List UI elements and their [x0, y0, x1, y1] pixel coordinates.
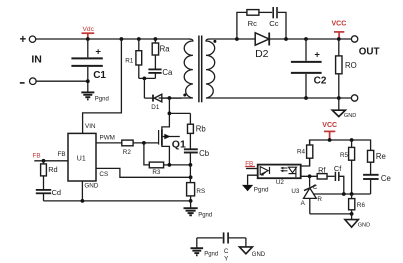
svg-text:R2: R2 — [123, 149, 132, 156]
transformer primary winding — [159, 39, 193, 98]
node junction GND bottom — [337, 96, 341, 100]
power VCC (feedback) — [322, 122, 337, 140]
node junction CS/RS — [189, 175, 193, 179]
ground Pgnd (CY) — [191, 238, 219, 258]
svg-text:Pgnd: Pgnd — [198, 213, 212, 219]
op-amp U1 controller — [68, 133, 96, 181]
svg-text:+: + — [95, 47, 101, 58]
wire PWM to R2 — [96, 142, 122, 144]
svg-text:+: + — [19, 34, 26, 46]
svg-text:PWM: PWM — [100, 134, 115, 141]
node junction R6 bottom — [350, 212, 354, 216]
ground Pgnd (RS) — [184, 201, 213, 219]
svg-text:Ca: Ca — [162, 68, 173, 77]
capacitor Cc — [269, 7, 278, 28]
svg-text:C1: C1 — [93, 70, 106, 81]
node junction C2 bottom — [304, 96, 308, 100]
wire reference row — [313, 193, 370, 195]
transformer secondary winding — [206, 39, 306, 98]
resistor R5 — [340, 140, 355, 194]
svg-text:R1: R1 — [125, 57, 134, 64]
resistor R3 — [149, 162, 169, 176]
svg-text:VIN: VIN — [85, 123, 96, 130]
node junction snubber left — [235, 37, 239, 41]
resistor RO — [336, 39, 357, 98]
svg-text:U1: U1 — [77, 156, 86, 163]
wire top rail — [36, 38, 190, 40]
svg-text:Re: Re — [376, 152, 386, 161]
svg-text:Cb: Cb — [199, 149, 210, 158]
wire secondary top rail — [209, 38, 351, 40]
node junction Cf drop — [342, 192, 346, 196]
resistor Rc — [247, 10, 272, 28]
resistor R2 — [122, 140, 159, 156]
svg-text:R5: R5 — [340, 152, 349, 159]
svg-text:Q1: Q1 — [172, 138, 186, 150]
svg-text:Pgnd: Pgnd — [204, 252, 218, 258]
node OUT- terminal — [351, 95, 357, 101]
wire clamp row — [139, 77, 156, 79]
svg-text:Rb: Rb — [196, 125, 207, 134]
svg-text:D1: D1 — [151, 104, 160, 111]
node junction VIN feed — [120, 37, 124, 41]
svg-text:VCC: VCC — [322, 122, 337, 129]
svg-text:Ra: Ra — [160, 45, 171, 54]
resistor Rf — [317, 165, 334, 179]
resistor R6 — [349, 194, 366, 214]
svg-text:FB: FB — [58, 151, 66, 158]
node junction R5 bottom — [350, 192, 354, 196]
node junction C1/minus — [86, 79, 90, 83]
svg-text:GND: GND — [358, 223, 370, 229]
wire secondary bottom rail — [306, 97, 351, 99]
wire snubber right — [278, 12, 286, 39]
node junction Vdc/C1 — [86, 37, 90, 41]
svg-text:U3: U3 — [291, 188, 300, 195]
wire CS row — [96, 168, 191, 177]
node junction Ra — [154, 37, 158, 41]
svg-text:C: C — [313, 184, 318, 191]
ground GND (CY) — [239, 238, 265, 258]
resistor Re — [368, 150, 386, 174]
svg-text:Pgnd: Pgnd — [254, 186, 269, 193]
wire source row — [169, 164, 190, 166]
capacitor CY — [197, 232, 246, 262]
svg-text:Rc: Rc — [248, 19, 257, 28]
svg-text:Pgnd: Pgnd — [95, 96, 109, 102]
diode D2 — [255, 33, 269, 61]
power VCC (output) — [332, 21, 347, 39]
wire clamp drop — [143, 78, 145, 98]
node - input terminal — [20, 78, 36, 85]
node junction gate — [142, 141, 146, 145]
resistor RS — [187, 165, 206, 201]
capacitor Cb — [184, 149, 210, 165]
wire FB row — [34, 160, 68, 162]
svg-text:R3: R3 — [152, 169, 161, 176]
svg-text:Rd: Rd — [48, 165, 57, 174]
svg-text:R4: R4 — [297, 148, 306, 155]
svg-text:FB: FB — [33, 153, 41, 160]
resistor Ra — [152, 39, 170, 69]
node junction Cb bottom — [189, 163, 193, 167]
capacitor C2 — [291, 39, 327, 98]
capacitor C1 — [71, 39, 106, 92]
svg-text:CS: CS — [99, 171, 108, 178]
capacitor Ca — [148, 68, 173, 79]
svg-text:R: R — [317, 196, 322, 203]
svg-text:Cf: Cf — [334, 164, 342, 173]
svg-text:+: + — [314, 49, 320, 60]
node junction RO top — [337, 37, 341, 41]
wire minus rail — [36, 80, 88, 82]
capacitor Cf — [334, 164, 344, 194]
node junction drain/Rb — [168, 112, 172, 116]
svg-text:C: C — [224, 248, 229, 255]
optocoupler U2 — [258, 165, 301, 187]
svg-text:Cd: Cd — [52, 188, 61, 197]
node junction R1 — [137, 37, 141, 41]
capacitor Cd — [36, 188, 61, 201]
resistor Rb — [188, 113, 207, 148]
wire ground row — [44, 200, 191, 202]
label FB (opto) — [245, 160, 255, 167]
svg-text:GND: GND — [252, 252, 266, 258]
node junction Rd top — [42, 159, 46, 163]
resistor R4 — [297, 145, 313, 158]
svg-text:RO: RO — [345, 61, 357, 70]
wire R4 to LED anode — [301, 140, 310, 166]
node junction LED cathode — [308, 174, 312, 178]
svg-text:GND: GND — [344, 113, 356, 119]
wire anode row — [310, 213, 352, 215]
ground Pgnd (C1) — [81, 92, 109, 102]
wire drain to Rb — [169, 112, 190, 114]
node junction source — [168, 163, 172, 167]
node primary phase dot — [183, 94, 186, 97]
svg-text:U2: U2 — [276, 179, 285, 186]
wire gate drop to R3 — [144, 143, 149, 165]
svg-text:C2: C2 — [314, 76, 327, 87]
wire FB to opto — [246, 168, 258, 170]
svg-text:Vdc: Vdc — [83, 26, 95, 33]
node junction clamp — [143, 77, 147, 81]
node junction R5 top — [350, 138, 354, 142]
node junction U1 GND — [81, 199, 85, 203]
wire opto cathode lead — [248, 175, 258, 185]
wire snubber left — [237, 12, 247, 39]
resistor R1 — [125, 39, 141, 78]
node junction C2 — [304, 37, 308, 41]
diode D1 — [144, 94, 181, 111]
node junction VCC stem — [328, 138, 332, 142]
wire VIN feed — [83, 39, 122, 133]
node junction RS bottom — [189, 199, 193, 203]
node junction snubber right — [284, 37, 288, 41]
transistor Q1 — [159, 98, 186, 165]
svg-text:VCC: VCC — [332, 21, 347, 28]
svg-text:OUT: OUT — [359, 47, 380, 58]
svg-text:IN: IN — [31, 54, 42, 66]
wire opto LED row — [301, 175, 318, 177]
ground Pgnd (opto) — [242, 185, 269, 194]
capacitor Ce — [363, 174, 391, 194]
ground GND (output) — [332, 98, 356, 119]
power Vdc — [82, 26, 95, 38]
resistor Rd — [41, 161, 58, 190]
svg-text:R6: R6 — [357, 202, 366, 209]
wire VCC feedback rail — [310, 140, 371, 166]
svg-text:D2: D2 — [255, 48, 269, 60]
svg-text:Rf: Rf — [318, 165, 326, 174]
node + input terminal — [19, 34, 35, 46]
svg-text:Ce: Ce — [381, 174, 391, 183]
svg-text:GND: GND — [84, 183, 98, 190]
ground GND (feedback) — [345, 214, 370, 229]
wire U1 GND lead — [81, 181, 83, 201]
node OUT+ terminal — [351, 36, 357, 42]
svg-text:Cc: Cc — [269, 19, 278, 28]
shunt regulator U3 — [291, 176, 322, 214]
node junction drain branch — [168, 96, 172, 100]
transformer core — [199, 36, 202, 103]
svg-text:RS: RS — [196, 188, 205, 195]
node secondary phase dot — [213, 40, 216, 43]
